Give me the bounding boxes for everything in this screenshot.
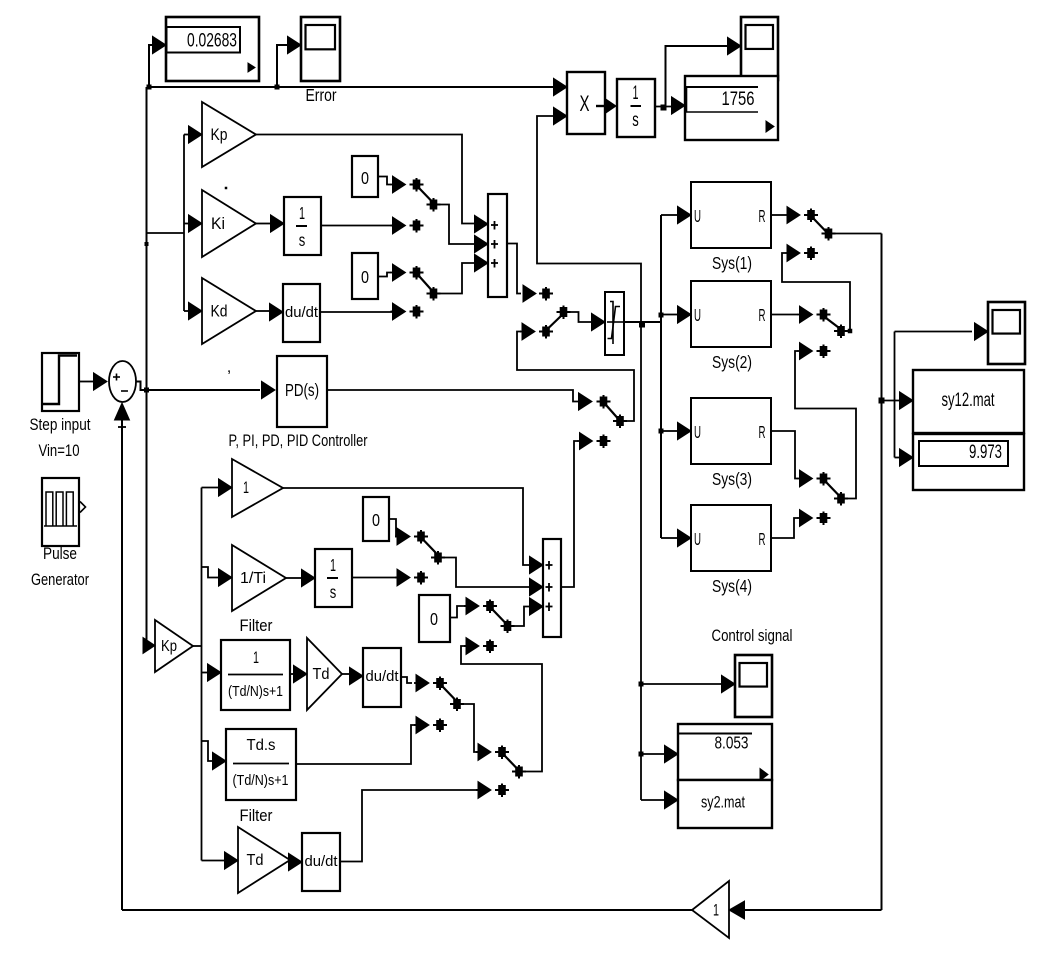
svg-text:1: 1 (330, 555, 336, 575)
svg-text:X: X (580, 91, 590, 116)
wire switch4 to sum2 (514, 607, 529, 627)
svg-text:R: R (759, 529, 766, 549)
switch7 top input contact (597, 395, 611, 409)
switchB output contact (834, 325, 848, 339)
wire sum2 to switch7 (561, 441, 578, 587)
svg-text:1/Ti: 1/Ti (240, 570, 266, 587)
constant 0 no.4 (419, 595, 450, 642)
svg-text:P, PI, PD, PID Controller: P, PI, PD, PID Controller (229, 431, 368, 450)
switch1 bottom input (1/s) (391, 217, 424, 234)
wire bus to Sys4 (661, 537, 677, 539)
wire integrator output (655, 106, 672, 108)
svg-text:Vin=10: Vin=10 (39, 441, 80, 460)
subsystem Sys(2) (691, 281, 771, 347)
wire const3 to switch3 (389, 519, 399, 537)
to-file sy12.mat (913, 370, 1024, 433)
switch7 lever (606, 405, 618, 418)
switch3 output contact (431, 551, 445, 565)
gain Kp small (155, 620, 193, 672)
svg-text:s: s (632, 110, 639, 131)
switch3 top input (0) (395, 528, 428, 545)
wire Sys4 R to switchC (771, 518, 798, 538)
switch2 lever (419, 276, 432, 290)
switch7 bottom input (578, 433, 611, 450)
wire PD output to switch7 (327, 390, 578, 402)
svg-text:sy2.mat: sy2.mat (701, 793, 745, 812)
svg-text:1: 1 (253, 648, 259, 667)
switch6 output contact (512, 765, 526, 779)
wire Kp small feed (146, 645, 148, 647)
wire 1/s lower to switch3 (352, 577, 399, 579)
scope output right (988, 302, 1025, 364)
switch2 bottom input (du/dt) (391, 303, 424, 320)
svg-text:R: R (759, 206, 766, 226)
transfer fcn Td.s/(Td/N)s+1 (226, 729, 296, 800)
wire feedback into sum (115, 403, 130, 910)
wire Kp to sum (256, 135, 474, 224)
svg-text:Filter: Filter (240, 806, 273, 825)
wire switch8 to saturation (570, 312, 592, 322)
wire Kd out (256, 310, 271, 312)
switch4 lever (493, 610, 506, 623)
wire control to X input 2 (537, 116, 641, 322)
svg-text:Filter: Filter (240, 616, 273, 635)
svg-text:du/dt: du/dt (366, 668, 400, 685)
svg-text:Pulse: Pulse (43, 544, 77, 563)
switch7 output contact (613, 415, 627, 429)
wire switch3 to sum2 (444, 558, 529, 588)
switchA top input (Sys1) (785, 207, 818, 224)
svg-text:0.02683: 0.02683 (187, 31, 237, 52)
svg-text:s: s (299, 230, 306, 250)
switchC lever (826, 482, 839, 495)
wire to control scope (641, 683, 721, 685)
gain 1 feedback (692, 881, 745, 938)
wire control bus (660, 215, 662, 538)
wire error-scope input (277, 45, 288, 88)
scope Control signal (735, 655, 772, 717)
switch8 bottom input (520, 323, 553, 340)
wire bus to Sys2 (661, 314, 677, 316)
wire du/dt3 to switch6 (340, 790, 478, 862)
gain Kp (189, 102, 257, 167)
wire to display 8.053 (641, 753, 666, 755)
constant 0 no.2 (352, 253, 378, 299)
wire to sy2.mat (641, 799, 666, 801)
wire Sys2 R to switchB (771, 314, 798, 316)
wire lower feed vertical (201, 488, 203, 861)
wire switch2 to sum (440, 263, 474, 294)
wire to gain 1/Ti (202, 567, 219, 578)
wire step to sum (79, 381, 94, 383)
svg-text:Control signal: Control signal (712, 626, 793, 645)
svg-text:s: s (330, 582, 337, 602)
sum block PID (488, 194, 507, 297)
display 8.053 (677, 724, 772, 781)
switchB top input (Sys2) (798, 306, 831, 323)
wire Sys1 R to switchA (771, 214, 785, 216)
wire 1/s to switch1 (321, 225, 394, 227)
switch8 output contact (557, 306, 571, 320)
display 1756 (685, 76, 778, 140)
wire control bus down (640, 322, 642, 800)
svg-text:0: 0 (430, 609, 438, 629)
constant 0 no.3 (363, 497, 389, 541)
svg-text:Td: Td (247, 852, 264, 869)
svg-text:R: R (759, 422, 766, 442)
to-file sy2.mat (678, 780, 772, 828)
svg-text:U: U (694, 529, 701, 549)
wire TF to Td (290, 673, 295, 675)
display Error-value 0.02683 (166, 17, 259, 81)
svg-text:Sys(2): Sys(2) (712, 352, 752, 372)
switch5 output contact (450, 698, 464, 712)
switch1 top input (0) (391, 176, 424, 193)
switch5 bottom input (Td.s) (414, 717, 447, 734)
wire switchA output to feedback (835, 233, 882, 235)
svg-text:sy12.mat: sy12.mat (942, 390, 995, 411)
wire display input (149, 45, 153, 88)
subsystem Sys(1) (691, 182, 771, 248)
wire feedback vertical (881, 234, 883, 911)
wire error line (147, 86, 557, 88)
svg-text:U: U (694, 305, 701, 325)
derivative du/dt 2 (363, 648, 401, 707)
wire switch6 to switch4 (461, 646, 542, 772)
wire du/dt to switch2 (320, 311, 394, 313)
wire to filter TF (202, 672, 210, 674)
svg-text:1: 1 (713, 901, 719, 920)
scope Error (301, 17, 340, 81)
switch6 top input (476, 744, 509, 761)
svg-text:Sys(4): Sys(4) (712, 576, 752, 596)
svg-text:du/dt: du/dt (305, 853, 339, 870)
wire switch5 to switch6 (463, 704, 478, 752)
svg-text:8.053: 8.053 (715, 733, 749, 753)
svg-text:1: 1 (299, 203, 305, 223)
switch8 top input contact (539, 287, 553, 301)
sum block 2 (543, 539, 561, 637)
wire du/dt2 to switch5 (401, 677, 412, 683)
switch5 lever (443, 687, 456, 700)
wire Kp small out (193, 645, 202, 647)
switchA bottom input (785, 245, 818, 262)
stray dot (225, 187, 228, 190)
wire to filter TF2 (202, 741, 213, 761)
svg-text:Step input: Step input (30, 415, 91, 434)
switch2 output contact (427, 287, 441, 301)
integrator 1/s (617, 79, 655, 137)
svg-text:U: U (694, 422, 701, 442)
svg-text:U: U (694, 206, 701, 226)
switch5 top input (du/dt) (414, 675, 447, 692)
svg-text:R: R (759, 305, 766, 325)
switch4 top input (0) (464, 598, 497, 615)
wire feedback to recorders (882, 400, 900, 402)
wire sum1 output (507, 244, 521, 294)
svg-text:9.973: 9.973 (969, 442, 1002, 463)
svg-text:Kd: Kd (211, 302, 228, 321)
svg-text:Ki: Ki (211, 214, 225, 233)
svg-text:0: 0 (361, 168, 369, 188)
switch1 output contact (427, 198, 441, 212)
switchA output contact (822, 227, 836, 241)
wire error vertical (146, 87, 148, 646)
svg-text:Sys(1): Sys(1) (712, 253, 752, 273)
wire Td to du/dt (342, 673, 350, 675)
wire switch1 to sum (440, 205, 474, 245)
switch4 bottom input (464, 638, 497, 655)
svg-text:(Td/N)s+1: (Td/N)s+1 (228, 684, 283, 700)
switch6 bottom input (du/dt) (476, 782, 509, 799)
source Pulse Generator (42, 478, 86, 546)
switch4 output contact (501, 620, 515, 634)
wire X output (596, 105, 605, 107)
switchC top input (Sys3) (798, 470, 831, 487)
derivative du/dt Kd (283, 284, 320, 342)
wire switch7 to switch8 (517, 332, 634, 422)
switchB bottom input (798, 343, 831, 360)
gain Kd (184, 278, 256, 344)
gain 1/Ti (232, 545, 286, 611)
switch1 lever (419, 188, 432, 201)
svg-text:1: 1 (243, 478, 249, 497)
gain Td 2 (238, 827, 290, 893)
display 9.973 (913, 434, 1024, 490)
source Step input (42, 353, 79, 411)
svg-text:(Td/N)s+1: (Td/N)s+1 (233, 773, 289, 789)
svg-text:Kp: Kp (161, 638, 177, 655)
switch2 top input (0) (391, 264, 424, 281)
wire branch scope/display (894, 332, 896, 458)
wire gain1 to sum2 (283, 488, 529, 565)
switch3 bottom input (1/s) (395, 569, 428, 586)
wire const2 to switch2 (378, 273, 391, 277)
wire feedback bottom (122, 909, 692, 911)
wire to top scope (666, 46, 729, 107)
integrator 1/s lower (315, 549, 352, 607)
svg-text:1: 1 (633, 83, 639, 104)
wire bus to Sys3 (661, 430, 677, 432)
switchC bottom input (Sys4) (798, 510, 831, 527)
transfer fcn PD(s) (277, 356, 327, 427)
gain Td 1 (307, 638, 342, 710)
subsystem Sys(4) (691, 505, 771, 571)
switchC output contact (834, 492, 848, 506)
wire sum output to PD (136, 382, 260, 391)
svg-text:Sys(3): Sys(3) (712, 469, 752, 489)
transfer fcn 1/(Td/N)s+1 (221, 640, 290, 710)
gain 1 (232, 459, 283, 517)
svg-text:du/dt: du/dt (285, 304, 319, 321)
svg-text:0: 0 (372, 510, 380, 530)
wire to Td 2 (202, 860, 225, 862)
wire Ki out (256, 223, 271, 225)
switchB lever (826, 318, 839, 328)
constant 0 no.1 (352, 156, 378, 197)
wire Td2 to du/dt3 (290, 859, 296, 861)
svg-text:Td.s: Td.s (247, 737, 276, 754)
svg-text:Kp: Kp (211, 125, 228, 144)
switch6 lever (505, 756, 518, 769)
switch8 lever (549, 316, 562, 329)
saturation block (605, 292, 624, 355)
integrator 1/s Ki (284, 197, 321, 255)
gain Ki (184, 190, 256, 257)
scope product (741, 17, 778, 80)
svg-text:Td: Td (313, 666, 330, 683)
wire const1 to switch1 (378, 177, 391, 185)
wire switchC to switchB (795, 351, 856, 499)
sum junction (109, 361, 136, 402)
wire Sys3 R to switchC (771, 431, 798, 479)
svg-text:,: , (227, 359, 231, 376)
switch3 lever (424, 540, 437, 553)
svg-text:1756: 1756 (722, 89, 755, 110)
product X (567, 72, 605, 134)
wire to gain 1 (202, 487, 219, 489)
wire saturation output (624, 321, 661, 323)
wire TF2 to switch5 (296, 725, 416, 764)
svg-text:Generator: Generator (31, 570, 89, 589)
derivative du/dt 3 (302, 833, 340, 891)
subsystem Sys(3) (691, 398, 771, 464)
wire bus to Sys1 (661, 214, 677, 216)
wire switchB to switchA (782, 253, 850, 331)
switchA lever (814, 219, 827, 232)
wire gains feed (147, 232, 185, 234)
wire const4 to switch4 (450, 606, 466, 618)
wire 1/Ti out (286, 577, 301, 579)
svg-text:0: 0 (361, 267, 369, 287)
svg-text:PD(s): PD(s) (285, 380, 319, 400)
